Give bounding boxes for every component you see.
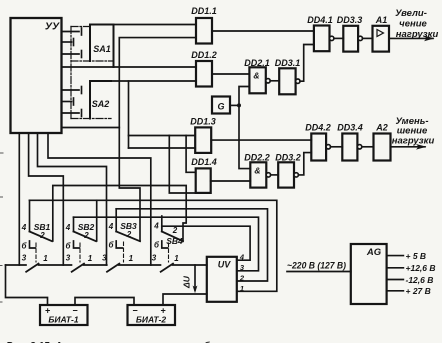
wire row D to UV pin 4 [162,226,250,260]
wire DD4.1 to DD3.3 [334,37,343,39]
svg-text:-12,6 В: -12,6 В [406,275,434,285]
scan artifacts left edge [0,153,3,302]
wire DD1.2 out to DD2.1 input 1 [212,73,249,75]
block DD4.1 [307,15,333,51]
svg-text:~220 В (127 В): ~220 В (127 В) [287,261,346,271]
svg-text:чение: чение [399,19,427,30]
delta U arrow [182,265,198,293]
AG output -12.6V [387,275,434,285]
inverter bubble DD3.1 [296,79,300,83]
svg-text:3: 3 [152,254,157,263]
svg-text:БИАТ-2: БИАТ-2 [136,315,166,325]
bus contact 3 [102,254,133,272]
wire branch to DD1.4 input 1 [186,136,196,173]
AND gate DD2.1 [244,58,270,93]
wire SA2 top to DD1.2 input 2 [111,80,196,82]
wire G to DD2.1 input 2 [239,87,249,106]
wire row A to UV pin 1 [30,200,277,291]
wire DD3.2 to DD4.2 input 2 [298,153,311,175]
svg-text:нагрузки: нагрузки [392,136,435,147]
block DD3.3 [337,15,363,52]
svg-text:DD1.4: DD1.4 [191,157,217,167]
logic block DD1.1 [191,6,217,44]
wire DD2.2 to DD3.2 [271,174,279,176]
label increase load [395,8,438,40]
wire UU column 1 to bus [18,133,20,265]
svg-text:UV: UV [218,260,231,270]
battery BIAT-1 [40,305,88,325]
switch SA1 [90,25,114,67]
svg-text:DD1.3: DD1.3 [190,117,216,127]
wire riser down to SB3 pin2 [119,128,140,242]
svg-text:б: б [66,242,72,251]
svg-text:б: б [109,241,115,250]
amplifier A2 [374,123,391,161]
svg-text:G: G [217,102,224,112]
wire UU column 3 to SB3 pin3 [38,133,107,265]
control unit UU [11,18,62,133]
inverter bubble DD3.4 [357,145,361,149]
svg-text:DD1.1: DD1.1 [191,6,217,16]
svg-text:1: 1 [129,254,134,263]
push button SB4 [153,216,183,250]
wire DD3.1 to DD4.1 input 2 [300,45,314,82]
svg-text:Увели-: Увели- [395,8,427,19]
svg-text:2: 2 [126,230,132,239]
svg-text:ΔU: ΔU [182,275,192,289]
push button SB2 [65,217,96,250]
wire SA1 right edge drop [113,25,115,68]
svg-text:4: 4 [108,222,114,231]
wire branch to DD1.3 inputs [128,81,130,148]
svg-text:DD3.1: DD3.1 [275,58,301,68]
inverter bubble DD4.2 [326,145,330,149]
label decrease load [392,116,435,147]
wire UU column 2 to SB2 pin3 [29,133,64,265]
svg-text:УУ: УУ [45,21,60,33]
caption fragment bottom [6,341,210,343]
svg-text:SA1: SA1 [93,44,111,54]
wire row B to UV pin 2 [116,209,267,281]
svg-text:4: 4 [153,222,159,231]
svg-text:2: 2 [83,231,89,240]
wire SB1 pin2 to DD1.4 input 2 and SB4 pin2 [53,186,186,242]
svg-text:б: б [22,242,28,251]
wire UU column 4 to DD1.4 input 1 [48,133,151,265]
svg-text:+ 27 В: + 27 В [406,286,431,296]
svg-text:1: 1 [43,254,48,263]
mains input ~220V [287,261,351,272]
SA2 contact 3 [62,110,82,117]
inverter DD3.1 [275,58,301,94]
logic block DD1.2 [191,50,217,87]
svg-text:нагрузки: нагрузки [396,29,439,40]
wire UU to DD1.2 input 1 [62,66,197,68]
SB3 mechanical link [123,242,125,262]
battery BIAT-2 [128,305,176,325]
wire DD1.1 out to DD4.1 input 1 [212,30,314,32]
voltage sensor UV [207,257,237,302]
bus contact 2 [66,254,93,272]
inverter bubble DD2.2 [266,173,270,177]
AG output +27V [387,286,431,296]
SA2 contact 1 [62,87,82,94]
switch SA2 [90,81,111,119]
block DD4.2 [305,123,331,161]
wire DD3.4 to A2 [362,146,374,148]
wire DD2.1 to DD3.1 [270,80,279,82]
svg-text:1: 1 [174,254,179,263]
svg-text:2: 2 [39,231,45,240]
svg-text:DD4.2: DD4.2 [305,123,331,133]
wire DD3.3 to A1 [363,37,373,39]
svg-text:A1: A1 [375,15,388,25]
wire G to DD2.2 input 1 [239,105,250,168]
amplifier A1 [373,15,390,52]
logic block DD1.4 [191,157,217,193]
wire branch to DD1.4 input 2 [169,136,195,194]
push button SB3 [108,209,140,250]
AG output +5V [387,251,426,261]
AND gate DD2.2 [244,153,270,188]
bus contact 4 [152,254,180,272]
logic block DD1.3 [190,117,216,153]
SB4 mechanical link [168,243,170,262]
svg-text:DD3.4: DD3.4 [337,123,363,133]
generator G [212,97,230,114]
svg-text:&: & [253,71,259,81]
wire DD1.4 out to DD2.2 input 2 [211,180,251,182]
inverter bubble DD4.1 [330,36,334,40]
power supply AG [351,244,387,304]
inverter bubble DD3.3 [358,36,362,40]
svg-text:б: б [154,241,160,250]
wire UU to DD1.1 input 2 via riser [62,38,197,128]
battery bus wire [6,264,27,266]
wire A2 output arrow decrease load [391,146,426,148]
svg-text:+12,6 В: +12,6 В [406,263,436,273]
push button SB1 [21,200,52,250]
SA1 contact 3 [62,51,82,58]
svg-text:1: 1 [88,254,93,263]
wire BIAT-1 minus to BIAT-2 minus [75,298,134,306]
svg-text:DD1.2: DD1.2 [191,50,217,60]
wire bus to BIAT-1 plus [6,265,48,305]
wire A1 output arrow increase load [389,37,433,39]
wire BIAT-2 plus to UV [163,294,207,305]
svg-text:DD2.1: DD2.1 [244,58,270,68]
inverter bubble DD3.2 [294,173,298,177]
svg-text:&: & [254,166,260,176]
junction node G [237,103,241,107]
svg-text:DD3.2: DD3.2 [275,153,301,163]
svg-text:4: 4 [65,223,71,232]
wire DD1.3 out to DD4.2 input 1 [211,139,311,141]
svg-text:DD4.1: DD4.1 [307,15,333,25]
block DD3.4 [337,123,363,161]
bus contact 1 [22,254,49,272]
SA1 contact 2 [62,39,74,46]
svg-text:AG: AG [366,247,382,258]
SA2 contact 2 [62,98,74,105]
SB2 mechanical link [79,243,81,262]
wire G output [230,104,239,106]
SA1 contact 1 [62,28,82,35]
inverter DD3.2 [275,153,301,188]
wire SB2 pin2 riser [96,200,98,241]
svg-text:DD3.3: DD3.3 [337,15,363,25]
wire DD4.2 to DD3.4 [331,146,343,148]
AG output +12.6V [387,263,436,273]
svg-text:3: 3 [66,254,71,263]
svg-text:3: 3 [22,254,27,263]
mechanical link dash-dot lines of SA1/SA2 [71,27,114,119]
svg-text:SA2: SA2 [92,99,110,109]
svg-text:DD2.2: DD2.2 [244,153,270,163]
wire row C to UV pin 3 [74,217,259,271]
svg-text:БИАТ-1: БИАТ-1 [48,315,78,325]
svg-text:3: 3 [102,254,107,263]
svg-text:2: 2 [172,226,178,235]
wire SA1 top to DD1.1 input 1 [114,24,197,26]
svg-text:4: 4 [21,223,27,232]
svg-text:A2: A2 [375,123,388,133]
svg-text:+ 5 В: + 5 В [406,251,427,261]
SB1 mechanical link [35,243,37,262]
inverter bubble DD2.1 [266,79,270,83]
